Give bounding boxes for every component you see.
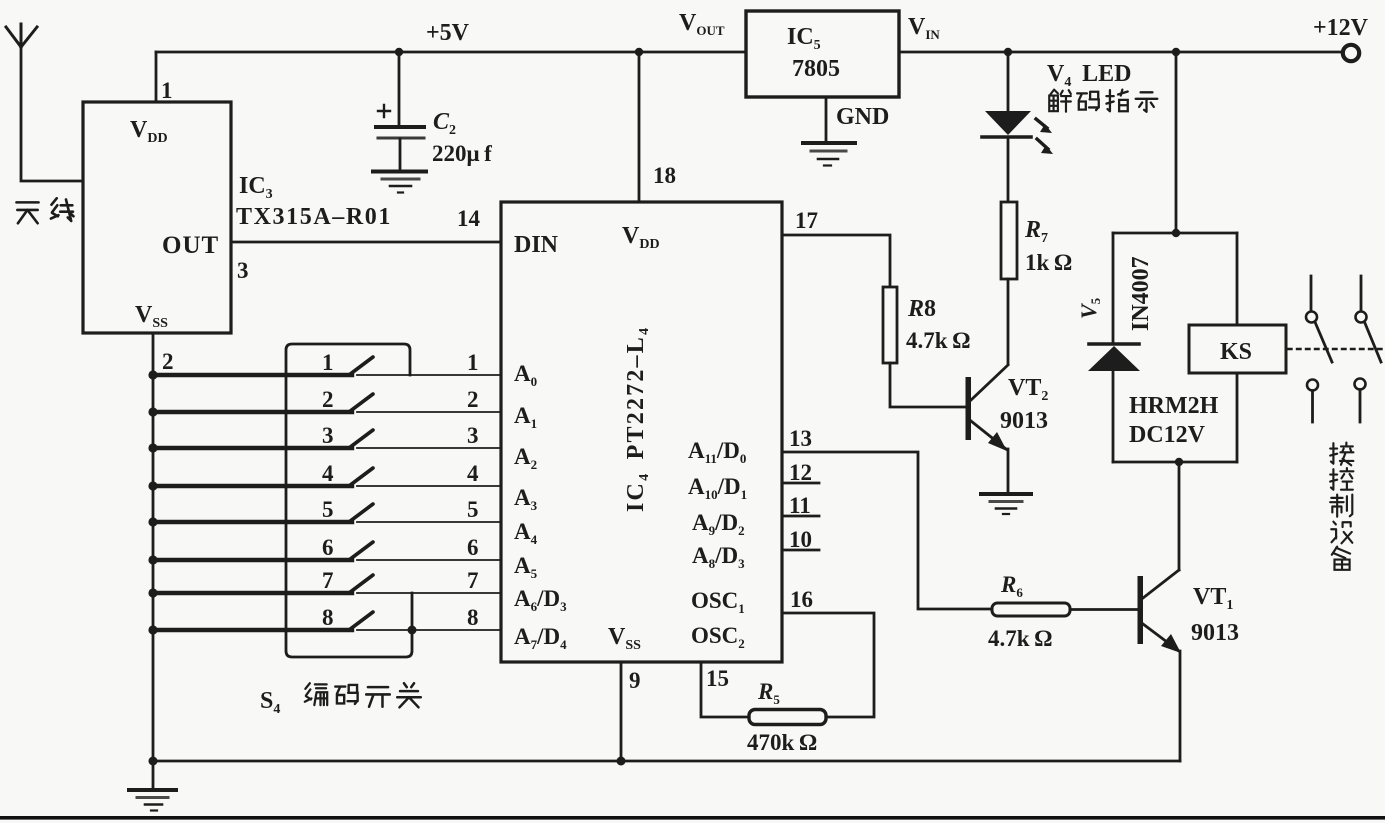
svg-text:GND: GND <box>836 104 889 130</box>
voltage regulator IC5 7805 <box>746 11 899 97</box>
pin 13 wire (to R6) <box>782 452 992 609</box>
relay coil wire (bottom) <box>1236 373 1239 462</box>
svg-text:OSC2: OSC2 <box>691 623 745 651</box>
junction (bus row 5) <box>148 517 157 526</box>
svg-text:16: 16 <box>790 587 813 612</box>
svg-text:KS: KS <box>1220 339 1252 365</box>
switch S4-5 lever <box>349 504 373 522</box>
switch S4-6 lever <box>349 542 373 560</box>
relay coil wire (top) <box>1236 233 1239 325</box>
svg-text:3: 3 <box>237 258 249 283</box>
svg-text:A11/D0: A11/D0 <box>688 438 746 466</box>
wire bus to switch 6 <box>153 558 352 562</box>
antenna <box>6 24 37 47</box>
wire rail to LED <box>1007 52 1010 111</box>
relay top wire <box>1113 232 1237 235</box>
pin 1 wire (IC3 VDD to +5V rail) <box>155 52 158 102</box>
junction (relay bottom to VT1) <box>1175 458 1183 466</box>
label 解码指示 <box>1049 90 1157 112</box>
junction (bus row 4) <box>148 481 157 490</box>
contact switch A <box>1306 276 1332 422</box>
label 接控制设备 (vertical) <box>1330 443 1353 570</box>
IC3 receiver module TX315A-R01 <box>83 102 231 333</box>
junction (bus row 3) <box>148 443 157 452</box>
svg-text:6: 6 <box>467 535 479 560</box>
svg-text:4.7k Ω: 4.7k Ω <box>988 626 1053 651</box>
svg-text:13: 13 <box>789 426 812 451</box>
resistor R6 <box>992 603 1070 616</box>
transistor VT2 9013 <box>966 365 1009 494</box>
junction (bus row 8) <box>148 625 157 634</box>
pin 17 wire <box>782 235 890 287</box>
wire switch 6 to IC4 pin 6 <box>357 559 501 561</box>
svg-text:17: 17 <box>795 208 818 233</box>
svg-text:1: 1 <box>161 78 173 103</box>
switch S4-7 lever <box>349 575 373 593</box>
junction (pin 18 tap) <box>635 48 643 56</box>
svg-text:9013: 9013 <box>1191 620 1239 646</box>
junction (bus row 6) <box>148 555 157 564</box>
svg-text:R8: R8 <box>907 296 936 322</box>
wire VT1 collector to relay <box>1178 462 1181 570</box>
+5V rail <box>156 51 746 54</box>
svg-text:220μ f: 220μ f <box>432 141 492 166</box>
decoder IC4 PT2272-L4 <box>501 202 782 662</box>
svg-text:+5V: +5V <box>426 20 470 46</box>
capacitor C2 <box>376 52 424 171</box>
svg-text:15: 15 <box>706 666 729 691</box>
svg-text:HRM2H: HRM2H <box>1129 393 1219 419</box>
svg-text:TX315A–R01: TX315A–R01 <box>236 204 392 230</box>
ground (C2) <box>373 172 426 193</box>
svg-text:4.7k Ω: 4.7k Ω <box>906 328 971 353</box>
wire bus to switch 1 <box>153 373 352 377</box>
wire switch 4 to IC4 pin 4 <box>357 485 501 487</box>
wire OUT to DIN (pin 3 to pin 14) <box>231 241 501 244</box>
wire bus to switch 5 <box>153 520 352 524</box>
pin 11 stub <box>782 515 819 518</box>
switch S4-8 lever <box>349 612 373 630</box>
svg-text:V4 LED: V4 LED <box>1047 61 1132 90</box>
svg-text:5: 5 <box>322 497 334 522</box>
svg-text:1: 1 <box>467 350 479 375</box>
svg-text:3: 3 <box>322 423 334 448</box>
wire bus to switch 3 <box>153 446 352 450</box>
ground (main) <box>129 761 176 811</box>
ground rail (bottom) <box>153 760 1180 763</box>
+12V rail <box>899 51 1343 54</box>
svg-text:470k Ω: 470k Ω <box>747 730 817 755</box>
wire switch 2 to IC4 pin 2 <box>357 411 501 413</box>
junction (pin 9 to ground rail) <box>617 757 626 766</box>
label 编码开关 <box>305 683 421 707</box>
dashed actuator link <box>1288 348 1384 350</box>
svg-text:5: 5 <box>467 497 479 522</box>
wire R6 to VT1 base <box>1070 608 1138 611</box>
svg-text:+12V: +12V <box>1313 15 1369 41</box>
wire bus to switch 7 <box>153 591 352 595</box>
junction (S4 outline to row 8) <box>408 626 417 635</box>
wire bus to switch 2 <box>153 410 352 414</box>
LED V4 <box>982 111 1053 154</box>
switch S4-1 lever <box>349 357 373 375</box>
svg-text:9013: 9013 <box>1000 408 1048 434</box>
svg-text:6: 6 <box>322 535 334 560</box>
wire LED to R7 <box>1007 137 1010 202</box>
switch S4-3 lever <box>349 430 373 448</box>
svg-text:10: 10 <box>789 527 812 552</box>
svg-text:18: 18 <box>653 163 676 188</box>
svg-text:7: 7 <box>322 568 334 593</box>
switch S4-4 lever <box>349 468 373 486</box>
svg-text:2: 2 <box>467 387 479 412</box>
junction (bus row 7) <box>148 588 157 597</box>
wire switch 1 to IC4 pin 1 <box>357 374 501 376</box>
ground (IC5) <box>803 143 855 166</box>
svg-text:9: 9 <box>629 668 641 693</box>
S4 DIP switch outline <box>286 344 412 657</box>
wire R8 to VT2 base <box>890 363 966 407</box>
wire switch 3 to IC4 pin 3 <box>357 447 501 449</box>
svg-text:11: 11 <box>789 493 811 518</box>
svg-text:7: 7 <box>467 568 479 593</box>
relay KS <box>1189 325 1286 373</box>
svg-text:A7/D4: A7/D4 <box>514 624 567 652</box>
resistor R7 <box>1001 202 1017 279</box>
wire antenna stem <box>21 47 83 181</box>
GND pin wire (IC5) <box>825 97 828 143</box>
resistor R5 <box>749 710 826 725</box>
wire switch 5 to IC4 pin 5 <box>357 521 501 523</box>
svg-text:OUT: OUT <box>162 232 219 259</box>
wire bus to switch 4 <box>153 484 352 488</box>
svg-text:IN4007: IN4007 <box>1128 256 1154 331</box>
pin 18 wire <box>638 52 641 202</box>
svg-text:A9/D2: A9/D2 <box>692 510 745 538</box>
junction (relay branch) <box>1172 48 1180 56</box>
svg-text:2: 2 <box>322 387 334 412</box>
pin 15 wire <box>701 662 749 717</box>
pin 16 wire <box>782 613 874 717</box>
junction (LED branch) <box>1004 48 1012 56</box>
+12V terminal <box>1343 45 1359 61</box>
ground (VT2) <box>981 494 1031 514</box>
pin 12 stub <box>782 482 819 485</box>
svg-text:A6/D3: A6/D3 <box>514 586 567 614</box>
wire +12V to relay top <box>1175 52 1178 233</box>
svg-text:4: 4 <box>467 461 479 486</box>
wire R7 to VT2 collector <box>1007 279 1010 364</box>
pin 10 stub <box>782 549 819 552</box>
svg-text:8: 8 <box>467 605 479 630</box>
svg-text:DC12V: DC12V <box>1129 422 1206 448</box>
wire switch 8 to IC4 pin 8 <box>357 629 501 631</box>
relay bottom wire <box>1113 461 1237 464</box>
svg-text:3: 3 <box>467 423 479 448</box>
svg-text:OSC1: OSC1 <box>691 588 745 616</box>
transistor VT1 9013 <box>1138 570 1182 761</box>
svg-text:4: 4 <box>322 461 334 486</box>
svg-text:DIN: DIN <box>514 232 559 258</box>
wire bus to switch 8 <box>153 628 352 632</box>
svg-text:7805: 7805 <box>792 56 840 82</box>
switch S4-2 lever <box>349 394 373 412</box>
page rule (bottom border) <box>0 816 1385 820</box>
contact switch B <box>1355 276 1382 422</box>
svg-text:2: 2 <box>162 349 174 374</box>
junction (bus row 2) <box>148 407 157 416</box>
junction (bus row 1) <box>148 370 157 379</box>
svg-text:14: 14 <box>457 206 481 231</box>
svg-text:1k Ω: 1k Ω <box>1025 250 1072 275</box>
svg-text:A10/D1: A10/D1 <box>688 474 747 502</box>
junction (C2 tap) <box>395 48 403 56</box>
junction (relay top) <box>1172 229 1180 237</box>
pin 9 wire <box>620 662 623 761</box>
svg-text:12: 12 <box>789 460 812 485</box>
svg-text:A8/D3: A8/D3 <box>692 543 745 571</box>
svg-text:8: 8 <box>322 605 334 630</box>
pin 2 wire / ground bus vertical <box>152 333 155 761</box>
svg-text:1: 1 <box>322 350 334 375</box>
diode V5 IN4007 <box>1088 233 1140 462</box>
wire switch 7 to IC4 pin 7 <box>357 592 501 594</box>
resistor R8 <box>883 287 897 363</box>
label 天线 <box>16 198 73 223</box>
svg-text:IC4 PT2272–L4: IC4 PT2272–L4 <box>623 326 652 512</box>
junction (bus to ground rail) <box>149 757 158 766</box>
